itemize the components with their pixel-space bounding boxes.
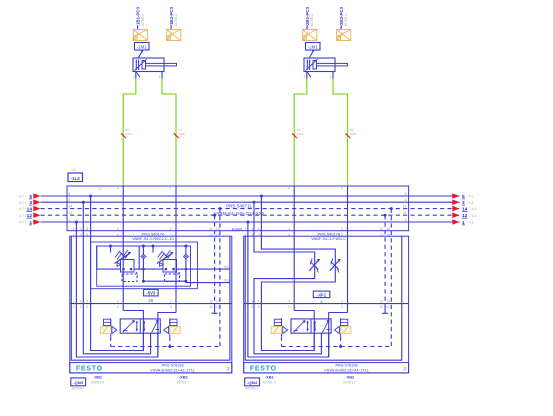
pilot box left of 1V5 left [104,319,111,325]
piston [313,61,317,70]
svg-text:-1B1-PC3: -1B1-PC3 [135,6,140,26]
port4 jog through valve2 [294,311,314,351]
svg-text:2: 2 [170,305,172,309]
svg-text:-XB2: -XB2 [345,375,355,380]
bus line 1 [41,221,460,223]
svg-text:1: 1 [303,75,305,79]
vertical arrow right box [314,321,316,331]
pilot bus junction at x=385.1 [384,214,387,217]
port2 jog through valve2 [329,313,348,358]
valve box divider [139,319,141,333]
pilot drop right solenoid right valve [340,337,342,347]
tube cylinder 1M1 port2 to valve port 2 [162,79,176,187]
pilot line 14 drop right [390,209,392,347]
svg-text:12: 12 [209,300,213,304]
wire to sensor 2B1 [306,26,308,30]
piston rod [146,63,177,66]
bus 1 left arrow [33,219,40,225]
svg-text:2: 2 [169,186,171,190]
svg-text:14: 14 [68,205,72,209]
svg-text:-XF1: -XF1 [317,292,327,297]
svg-text:2: 2 [341,300,343,304]
sensor 1B2 switch symbol [167,30,181,41]
svg-text:14: 14 [216,305,220,309]
port4 jog through valve1 [123,311,143,351]
svg-text:.4.2: .4.2 [71,168,77,172]
tube length note left tube B [174,133,179,138]
FESTO strip right [244,363,409,373]
wire line5 through throttle 2 to valve2 port [261,196,335,351]
svg-text:-1L4: -1L4 [71,176,81,181]
svg-text:0,6m: 0,6m [297,132,304,136]
bus 12 right arrow [452,212,459,218]
svg-text:VSVA-B-B52-ZD-A1-1T1L: VSVA-B-B52-ZD-A1-1T1L [150,368,196,373]
svg-text:3: 3 [251,300,253,304]
pilot dashed hook [134,272,138,278]
svg-text:-2B1-PC3: -2B1-PC3 [305,6,310,26]
blocked port bar right [326,328,329,330]
svg-text:5: 5 [86,227,88,231]
svg-text:ZB: ZB [148,298,153,303]
pilot bus junction at x=214.6 [213,214,216,217]
svg-text:5: 5 [405,192,407,196]
label arrow -2M1 [310,52,314,58]
terminal labels below left strip [71,378,86,386]
port 2 stub [161,72,163,79]
wire line5 to valve1 port [91,196,144,351]
svg-text:2: 2 [159,75,161,79]
svg-text:14: 14 [386,305,390,309]
sensor 2B1 switch symbol [303,30,317,41]
cylinder 1M1 label -1M1 [135,43,150,51]
unit1 inlet L-wire [97,246,121,269]
port 1 stub [306,72,308,79]
pilot interface line left [281,318,283,336]
svg-text:3: 3 [68,198,70,202]
svg-text:5: 5 [258,300,260,304]
wire to sensor 2B2 [340,26,342,30]
svg-text:12: 12 [209,227,213,231]
svg-text:12: 12 [209,305,213,309]
label -XF1 [313,291,330,298]
pilot drop left solenoid [110,337,112,347]
wire line3 to valve1 port [83,202,150,354]
bus line 5 [41,195,460,197]
flow-control regulator 1V1 unit1 [110,246,112,253]
valve assembly 1 (left) outer box [70,236,232,373]
pilot line 12 stub right [384,215,386,303]
label arrow -1M1 [139,52,143,58]
pilot rail right valve [282,346,392,348]
svg-text:4.7 /: 4.7 / [19,221,27,225]
pilot box right of 1V5 left [170,319,177,325]
wire port2 left assembly [175,186,177,313]
bus 12 left arrow [33,212,40,218]
pilot triangle left of 2V5 right [283,326,288,333]
pilot interface line left [110,318,112,336]
svg-text:1: 1 [405,218,407,222]
bus junction at x=90.6 [89,195,92,198]
svg-text:4075/2.7: 4075/2.7 [177,380,190,384]
svg-text:12: 12 [380,305,384,309]
cylinder cap line [135,60,137,71]
svg-text:2: 2 [330,75,332,79]
diagonal arrow right box [152,320,158,333]
cylinder 2M1 label -2M1 [306,43,321,51]
svg-text:X: X [320,299,323,304]
svg-text:12: 12 [403,211,407,215]
bus 1 right arrow [452,219,459,225]
check valve unit2 [185,246,187,281]
unit2 inlet L-wire [139,246,163,269]
svg-text:4075/1.4: 4075/1.4 [263,380,276,384]
svg-text:-5V3: -5V3 [146,291,156,296]
sensor 2B2 switch symbol [337,30,351,41]
svg-text:1: 1 [68,218,70,222]
svg-text:1: 1 [73,305,75,309]
inner frame loop left assembly [71,236,230,360]
unit1 outlet wire [134,268,143,270]
pilot dashed hook [177,272,181,278]
solenoid right of 1V5 left [170,326,180,333]
svg-text:3: 3 [405,198,407,202]
wire port4 right assembly [293,186,295,311]
pilot drop left solenoid right valve [281,337,283,347]
svg-text:4: 4 [288,300,290,304]
svg-text:0,6m: 0,6m [179,132,186,136]
FESTO strip left [70,363,232,373]
bus 5 right arrow [452,193,459,199]
manifold block -1L4 outline [67,186,409,231]
port2 jog through valve1 [158,313,176,358]
svg-text:J: J [403,366,405,371]
port 2 stub [332,72,334,79]
vertical arrow right box [143,321,145,331]
svg-text:5: 5 [86,300,88,304]
regulator top rail [97,245,186,247]
throttle valve unit2 right [330,260,340,271]
bus 3 left arrow [33,199,40,205]
pilot box right of 2V5 right [341,319,348,325]
tube length note left tube A [121,133,126,138]
solenoid left of 1V5 left [100,326,110,333]
svg-text:4075/5.1: 4075/5.1 [344,14,348,27]
svg-text:14: 14 [386,300,390,304]
svg-text:5: 5 [258,305,260,309]
svg-text:4075/5.1: 4075/5.1 [310,14,314,27]
svg-text:4075/4.7: 4075/4.7 [72,387,85,391]
piston rod [317,63,348,66]
valve assembly 2 (right) outer box [244,236,409,373]
svg-text:4075/5.1: 4075/5.1 [141,14,145,27]
svg-text:FESTO: FESTO [76,366,103,373]
vertical arrow left box [307,321,309,331]
bus 3 right arrow [452,199,459,205]
svg-text:4: 4 [117,227,119,231]
svg-text:-XB2: -XB2 [179,375,189,380]
svg-text:2: 2 [341,186,343,190]
magnet diagonal [306,59,318,70]
svg-text:1: 1 [73,227,75,231]
flow-control regulator 1V2 unit2 [152,246,154,253]
valve box divider [310,319,312,333]
svg-text:1: 1 [73,300,75,304]
svg-text:12: 12 [68,211,72,215]
svg-text:-1M1: -1M1 [137,44,147,49]
bus 14 right arrow [452,206,459,212]
pilot dashed box [165,274,180,282]
svg-text:3: 3 [80,300,82,304]
tube cylinder 1M1 port1 to valve port 4 [123,79,136,187]
blocked port bar left [123,330,127,332]
svg-text:4.7 /: 4.7 / [19,201,27,205]
svg-text:12: 12 [380,300,384,304]
5/2 directional valve 2V5 right [291,319,331,333]
pilot rail left valve [111,346,220,348]
svg-text:3: 3 [251,305,253,309]
bus junction at x=83.3 [82,201,85,204]
svg-text:-2B2-PC3: -2B2-PC3 [339,6,344,26]
gauge port line 8X2 [186,268,230,270]
svg-text:B/EB1: B/EB1 [232,228,243,232]
magnet diagonal [135,59,147,70]
pilot interface line right [340,318,342,336]
pilot line 12 stub left [214,215,216,303]
pilot triangle right of 1V5 left [164,326,169,333]
5/2 directional valve 1V5 left [120,319,160,333]
svg-text:-QM4: -QM4 [247,380,258,385]
svg-text:4: 4 [288,305,290,309]
svg-text:4: 4 [117,305,119,309]
terminal labels below right strip [245,378,260,386]
pilot drop right solenoid [169,337,171,347]
svg-text:14: 14 [216,300,220,304]
tube cylinder 2M1 port2 to valve port 2 [333,79,348,187]
inner frame loop right assembly [245,236,402,360]
svg-text:3: 3 [80,227,82,231]
svg-text:0,6m: 0,6m [350,132,357,136]
pilot bus junction at x=219.9 [218,207,221,210]
svg-text:/ 4.1: / 4.1 [470,207,477,211]
svg-text:2: 2 [341,305,343,309]
svg-text:3: 3 [80,305,82,309]
cylinder 1M1 body [133,58,164,72]
wire line1 to valve1 port [76,222,157,357]
wire port2 right assembly [347,186,349,313]
svg-text:3: 3 [251,227,253,231]
wire to sensor 1B1 [137,26,139,30]
cylinder 2M1 body [304,58,335,72]
svg-text:-1B2-PC3: -1B2-PC3 [169,6,174,26]
pilot box left of 2V5 right [274,319,281,325]
blocked port bar left [294,330,298,332]
svg-text:4: 4 [117,186,119,190]
cushion diagonal tail [307,72,311,78]
svg-text:-QM3: -QM3 [73,380,84,385]
bus 14 left arrow [33,206,40,212]
svg-text:14: 14 [403,205,407,209]
svg-text:FESTO: FESTO [250,366,277,373]
svg-text:-XB1: -XB1 [93,375,103,380]
svg-text:4075/5.1: 4075/5.1 [245,387,258,391]
valve assembly 2 boundary line [244,303,409,305]
crossed arrow [294,321,305,333]
solenoid left of 2V5 right [271,326,281,333]
regulator bottom rail [143,280,186,282]
svg-text:.5.2: .5.2 [97,186,103,190]
svg-text:2: 2 [341,227,343,231]
svg-text:5: 5 [68,192,70,196]
wire line3 through throttle 1 to valve2 port [254,202,321,354]
label -5V3 [144,289,159,296]
pilot bus junction at x=391.3 [390,207,393,210]
diagonal arrow right box [322,320,328,333]
crossed arrow [123,321,134,333]
blocked port bar right [156,328,159,330]
svg-text:VABF-S4-1-R5C2-C-10: VABF-S4-1-R5C2-C-10 [132,236,174,241]
bus line 12 [41,214,460,216]
svg-text:/ 4.1: / 4.1 [467,195,474,199]
bus junction at x=261.4 [260,195,263,198]
sensor 1B1 switch symbol [133,30,147,41]
svg-text:2: 2 [170,300,172,304]
pilot interface line right [169,318,171,336]
svg-text:-XB1: -XB1 [265,375,275,380]
bus junction at x=254.0 [253,201,256,204]
bus 5 left arrow [33,193,40,199]
tube length note right tube B [345,133,350,138]
check valve unit1 [142,246,144,281]
wire port4 left assembly [122,186,124,311]
solenoid right of 2V5 right [341,326,351,333]
svg-text:/ 4.1: / 4.1 [467,201,474,205]
svg-text:4: 4 [117,300,119,304]
svg-text:2: 2 [170,227,172,231]
svg-text:VABF-S4-1-F1B1-C: VABF-S4-1-F1B1-C [311,236,346,241]
gauge port line 8X1 [186,282,230,284]
wire line1 to valve2 port [248,222,329,357]
cylinder cap line 2 [309,60,311,71]
svg-text:0,6m: 0,6m [126,132,133,136]
svg-text:4075/1.7: 4075/1.7 [343,380,356,384]
regulator plate wrapper box inner [97,246,191,286]
svg-text:1: 1 [244,227,246,231]
svg-text:/ 4.1: / 4.1 [470,214,477,218]
svg-text:5: 5 [258,227,260,231]
pilot triangle left of 1V5 left [112,326,117,333]
svg-text:VABM-S4-1NS-G14-XX2: VABM-S4-1NS-G14-XX2 [214,211,265,216]
svg-text:14: 14 [386,227,390,231]
svg-text:5: 5 [86,305,88,309]
svg-text:1: 1 [132,75,134,79]
cylinder cap line 2 [138,60,140,71]
piston [142,61,146,70]
valve assembly 1 boundary line [70,303,232,305]
bus junction at x=76.4 [75,221,78,224]
bus line 14 [41,208,460,210]
svg-text:/ 4.1: / 4.1 [467,221,474,225]
svg-text:4: 4 [288,186,290,190]
cushion diagonal tail [136,72,140,78]
svg-text:VSVA-B-B52-ZD-A1-1T1L: VSVA-B-B52-ZD-A1-1T1L [324,368,370,373]
svg-text:4075/5.1: 4075/5.1 [174,14,178,27]
svg-text:4.7 /: 4.7 / [19,195,27,199]
cylinder cap line [306,60,308,71]
vertical arrow left box [136,321,138,331]
pilot dashed box [122,274,137,282]
regulator plate wrapper box outer [91,242,198,289]
svg-text:4: 4 [288,227,290,231]
port 1 stub [135,72,137,79]
svg-text:J: J [227,366,229,371]
wire to sensor 1B2 [170,26,172,30]
pilot triangle right of 2V5 right [335,326,340,333]
tube cylinder 2M1 port1 to valve port 4 [294,79,307,187]
throttle valve unit1 right [309,260,319,271]
bus junction at x=247.9 [246,221,249,224]
pilot line 14 drop left [219,209,221,347]
svg-text:-2M1: -2M1 [308,44,318,49]
unit2 outlet wire [177,268,186,270]
bus line 3 [41,201,460,203]
svg-text:PRS 546711: PRS 546711 [226,204,252,209]
svg-text:4075/2.4: 4075/2.4 [91,380,104,384]
svg-text:14: 14 [216,227,220,231]
svg-text:12: 12 [380,227,384,231]
tube length note right tube A [292,133,297,138]
